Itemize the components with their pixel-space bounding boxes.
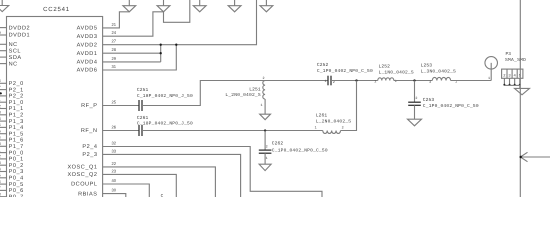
svg-text:2: 2 bbox=[415, 96, 417, 101]
svg-text:2: 2 bbox=[266, 145, 268, 150]
svg-text:L_2N0_0402_S: L_2N0_0402_S bbox=[225, 92, 260, 98]
svg-text:P0_6: P0_6 bbox=[9, 188, 24, 194]
svg-text:DCOUPL: DCOUPL bbox=[71, 182, 97, 188]
svg-text:RBIAS: RBIAS bbox=[78, 191, 97, 197]
svg-text:XOSC_Q1: XOSC_Q1 bbox=[67, 165, 97, 171]
svg-text:P1_3: P1_3 bbox=[9, 119, 24, 125]
svg-text:6: 6 bbox=[0, 180, 1, 184]
svg-text:P1_7: P1_7 bbox=[9, 144, 24, 150]
pin P0_2 (left) bbox=[0, 164, 7, 166]
svg-text:AVDD6: AVDD6 bbox=[77, 68, 98, 74]
svg-text:RF_P: RF_P bbox=[81, 103, 97, 109]
svg-text:2: 2 bbox=[429, 80, 431, 85]
svg-text:C_1P0_0402_NP0_C_50: C_1P0_0402_NP0_C_50 bbox=[317, 68, 373, 74]
svg-text:1: 1 bbox=[0, 148, 1, 152]
svg-text:P2_1: P2_1 bbox=[9, 87, 24, 93]
svg-text:7: 7 bbox=[0, 85, 1, 89]
svg-text:1: 1 bbox=[261, 103, 263, 108]
svg-text:4: 4 bbox=[0, 117, 1, 121]
P3 shield stubs to rail bbox=[503, 78, 505, 85]
svg-text:L252: L252 bbox=[379, 64, 391, 70]
svg-text:AVDD4: AVDD4 bbox=[77, 60, 98, 66]
svg-text:L_2N0_0402_S: L_2N0_0402_S bbox=[316, 119, 351, 125]
junction dot L261 riser bbox=[355, 79, 357, 81]
svg-text:C: C bbox=[161, 194, 164, 197]
svg-text:P1_1: P1_1 bbox=[9, 106, 24, 112]
ground C253 gnd bbox=[408, 119, 422, 126]
wire XOSC_Q2 pin23 route to bottom bbox=[103, 174, 177, 197]
capacitor C261 (series) bbox=[138, 125, 140, 136]
svg-text:C253: C253 bbox=[423, 97, 435, 103]
svg-text:2: 2 bbox=[0, 104, 1, 108]
wire XOSC_Q1 pin22 route to bottom bbox=[103, 167, 216, 197]
capacitor C251 (series) bbox=[138, 100, 140, 111]
pin P1_7 (left) bbox=[0, 145, 7, 147]
svg-text:AVDD3: AVDD3 bbox=[77, 34, 98, 40]
pin P1_4 (left) bbox=[0, 126, 7, 128]
wire AVDD5 pin21 to power T1 bbox=[103, 12, 130, 28]
vertical tie 27/28/29 bbox=[160, 45, 162, 62]
svg-text:P1_6: P1_6 bbox=[9, 138, 24, 144]
P3 center pin stem bbox=[490, 63, 492, 81]
power symbol T5 bbox=[260, 0, 273, 12]
svg-text:L253: L253 bbox=[421, 63, 433, 69]
capacitor C253 (shunt) bbox=[408, 101, 421, 103]
power symbol T3 bbox=[193, 0, 206, 12]
svg-text:P1_2: P1_2 bbox=[9, 113, 24, 119]
svg-text:P3: P3 bbox=[506, 51, 512, 57]
pin P1_3 (left) bbox=[0, 120, 7, 122]
svg-text:CC2541: CC2541 bbox=[43, 6, 70, 13]
pin NC (left) bbox=[0, 43, 7, 45]
svg-text:4: 4 bbox=[0, 167, 1, 171]
svg-text:6: 6 bbox=[0, 130, 1, 134]
svg-text:P0_5: P0_5 bbox=[9, 182, 24, 188]
svg-text:P0_1: P0_1 bbox=[9, 157, 24, 163]
svg-text:L261: L261 bbox=[316, 112, 328, 118]
svg-text:3: 3 bbox=[0, 161, 1, 165]
svg-text:25: 25 bbox=[112, 100, 117, 105]
wire L261 riser to top RF line bbox=[341, 81, 357, 131]
power symbol far-left (partial) bbox=[0, 0, 9, 12]
IC U1: CC2541 (40-pin QFN) chip body bbox=[7, 17, 103, 200]
svg-text:23: 23 bbox=[112, 168, 117, 173]
svg-text:5: 5 bbox=[0, 174, 1, 178]
pin P0_5 (left) bbox=[0, 183, 7, 185]
svg-text:DVDD2: DVDD2 bbox=[9, 25, 31, 31]
svg-text:5: 5 bbox=[0, 123, 1, 127]
ground L251 gnd bbox=[260, 114, 271, 120]
pin P1_5 (left) bbox=[0, 133, 7, 135]
junction dot C253 bbox=[413, 79, 415, 81]
P3 circle (coax center) bbox=[485, 57, 498, 70]
junction blob left edge bbox=[0, 92, 2, 94]
svg-text:3: 3 bbox=[0, 142, 1, 146]
power symbol T1 bbox=[123, 0, 136, 12]
svg-text:40: 40 bbox=[112, 178, 117, 183]
pin P1_2 (left) bbox=[0, 114, 7, 116]
svg-text:P2_2: P2_2 bbox=[9, 94, 24, 100]
wire RBIAS pin30 route to bottom bbox=[103, 194, 126, 197]
capacitor C253 shunt bbox=[414, 81, 416, 103]
svg-text:NC: NC bbox=[9, 61, 18, 67]
wire L252 to L253 bbox=[394, 80, 433, 82]
wire from T2 apex exiting top at x=189.8 bbox=[164, 0, 190, 22]
svg-text:AVDD2: AVDD2 bbox=[77, 42, 98, 48]
svg-text:SDA: SDA bbox=[9, 55, 22, 61]
svg-text:32: 32 bbox=[112, 141, 117, 146]
arrowhead bbox=[520, 152, 527, 161]
svg-text:L_1N0_0402_S: L_1N0_0402_S bbox=[379, 70, 414, 76]
shield rail bbox=[504, 84, 519, 86]
svg-text:P2_0: P2_0 bbox=[9, 81, 24, 87]
svg-text:P1_5: P1_5 bbox=[9, 131, 24, 137]
svg-text:NC: NC bbox=[9, 42, 18, 48]
pin P1_0 (left) bbox=[0, 101, 7, 103]
svg-text:2: 2 bbox=[374, 79, 376, 84]
svg-text:1: 1 bbox=[325, 79, 327, 84]
svg-text:7: 7 bbox=[0, 186, 1, 190]
svg-text:22: 22 bbox=[112, 161, 117, 166]
power symbol T2 bbox=[157, 0, 170, 12]
svg-text:1: 1 bbox=[488, 76, 490, 81]
svg-text:29: 29 bbox=[112, 56, 117, 61]
svg-text:C_1P0_0402_NP0_C_50: C_1P0_0402_NP0_C_50 bbox=[272, 148, 328, 154]
svg-text:30: 30 bbox=[112, 188, 117, 193]
svg-text:1: 1 bbox=[0, 98, 1, 102]
pin P2_2 (left) bbox=[0, 95, 7, 97]
pin P0_3 (left) bbox=[0, 171, 7, 173]
svg-text:P1_0: P1_0 bbox=[9, 100, 24, 106]
svg-text:2: 2 bbox=[263, 76, 265, 81]
svg-text:1: 1 bbox=[266, 156, 268, 161]
wire RF_N from chip bbox=[103, 130, 139, 132]
wire AVDD6 pin31 riser to pin27 net bbox=[103, 45, 177, 70]
svg-text:27: 27 bbox=[112, 39, 117, 44]
wire C261 to L261 bbox=[142, 130, 323, 132]
pin NC (left) bbox=[0, 63, 7, 65]
wire AVDD4 pin29 bbox=[103, 61, 161, 63]
power symbol T4 bbox=[228, 0, 241, 12]
svg-text:2: 2 bbox=[0, 136, 1, 140]
pin P1_6 (left) bbox=[0, 139, 7, 141]
svg-text:P2_3: P2_3 bbox=[82, 152, 97, 158]
svg-text:21: 21 bbox=[112, 22, 117, 27]
svg-text:DVDD1: DVDD1 bbox=[9, 33, 31, 39]
svg-text:C_18P_0402_NP0_J_50: C_18P_0402_NP0_J_50 bbox=[137, 93, 193, 99]
svg-text:P1_4: P1_4 bbox=[9, 125, 24, 131]
node L251 top / wire to C252 bbox=[263, 80, 328, 82]
pin P0_7 (left) bbox=[0, 196, 7, 198]
wire P2_4 pin32 route to bottom bbox=[103, 147, 322, 198]
pin P0_1 (left) bbox=[0, 158, 7, 160]
wire L253 to SMA bbox=[451, 80, 492, 82]
svg-text:P0_7: P0_7 bbox=[9, 194, 24, 197]
svg-text:P0_0: P0_0 bbox=[9, 150, 24, 156]
pin P0_4 (left) bbox=[0, 177, 7, 179]
wire RF_P from chip bbox=[103, 105, 139, 107]
off-page wire with arrow bbox=[520, 156, 550, 158]
svg-text:31: 31 bbox=[112, 64, 117, 69]
svg-text:6: 6 bbox=[0, 79, 1, 83]
svg-text:P0_2: P0_2 bbox=[9, 163, 24, 169]
pin P2_0 (left) bbox=[0, 82, 7, 84]
pin SDA (left) bbox=[0, 56, 7, 58]
svg-text:C252: C252 bbox=[317, 62, 329, 68]
inductor L253 coil bbox=[432, 77, 450, 80]
ground P3 gnd bbox=[515, 88, 530, 94]
P3 shield pins box 2345 bbox=[502, 69, 523, 78]
wire DCOUPL pin40 route to bottom bbox=[103, 184, 150, 197]
svg-text:AVDD5: AVDD5 bbox=[77, 26, 98, 32]
pin DVDD1 (left) bbox=[0, 34, 7, 36]
inductor L261 coil bbox=[323, 131, 341, 134]
svg-text:AVDD1: AVDD1 bbox=[77, 51, 98, 57]
svg-text:RF_N: RF_N bbox=[81, 128, 98, 134]
svg-text:C262: C262 bbox=[272, 141, 284, 147]
junction dot C262 bbox=[264, 129, 266, 131]
svg-text:2: 2 bbox=[0, 155, 1, 159]
svg-text:2: 2 bbox=[342, 125, 344, 130]
page frame vertical line bbox=[519, 0, 521, 197]
pin P0_6 (left) bbox=[0, 189, 7, 191]
wire AVDD1 pin28 bbox=[103, 52, 161, 54]
inductor L252 coil bbox=[378, 78, 394, 81]
svg-text:C_18P_0402_NP0_J_50: C_18P_0402_NP0_J_50 bbox=[137, 121, 193, 127]
inductor L251 coil bbox=[263, 81, 265, 99]
svg-text:L251: L251 bbox=[249, 86, 261, 92]
svg-text:C_1P0_0402_NP0_C_50: C_1P0_0402_NP0_C_50 bbox=[423, 103, 479, 109]
svg-text:SMA_SMD: SMA_SMD bbox=[505, 57, 526, 63]
svg-text:L_3N0_0402_S: L_3N0_0402_S bbox=[421, 69, 456, 75]
wire AVDD3 pin24 to power T2 bbox=[103, 12, 164, 36]
svg-text:P0_4: P0_4 bbox=[9, 176, 24, 182]
svg-text:XOSC_Q2: XOSC_Q2 bbox=[67, 172, 97, 178]
wire P2_3 pin33 route to bottom bbox=[103, 154, 241, 197]
svg-text:28: 28 bbox=[112, 47, 117, 52]
svg-text:24: 24 bbox=[112, 30, 117, 35]
wire C251 to riser bbox=[142, 81, 263, 106]
capacitor C262 (shunt) bbox=[259, 149, 272, 151]
capacitor C262 shunt bbox=[264, 131, 266, 151]
pin DVDD2 (left) bbox=[0, 27, 7, 29]
svg-text:P2_4: P2_4 bbox=[82, 144, 97, 150]
ground C262 gnd bbox=[259, 164, 271, 170]
svg-text:P0_3: P0_3 bbox=[9, 169, 24, 175]
svg-text:3: 3 bbox=[0, 111, 1, 115]
wire AVDD2 pin27 net to top edge bbox=[103, 0, 257, 45]
junction dots top bbox=[160, 44, 162, 46]
wire C252 to L252 bbox=[331, 80, 378, 82]
svg-text:33: 33 bbox=[112, 148, 117, 153]
pin P0_0 (left) bbox=[0, 152, 7, 154]
svg-text:C261: C261 bbox=[137, 115, 149, 121]
pin P2_1 (left) bbox=[0, 89, 7, 91]
svg-text:26: 26 bbox=[112, 125, 117, 130]
pin SCL (left) bbox=[0, 50, 7, 52]
svg-text:SCL: SCL bbox=[9, 48, 21, 54]
pin P1_1 (left) bbox=[0, 108, 7, 110]
svg-text:9: 9 bbox=[0, 31, 1, 35]
capacitor C252 (series) bbox=[327, 76, 329, 86]
svg-text:1: 1 bbox=[315, 125, 317, 130]
inductor L251 (shunt to gnd) bbox=[264, 80, 266, 82]
svg-text:C251: C251 bbox=[137, 87, 149, 93]
svg-text:8: 8 bbox=[0, 193, 1, 197]
